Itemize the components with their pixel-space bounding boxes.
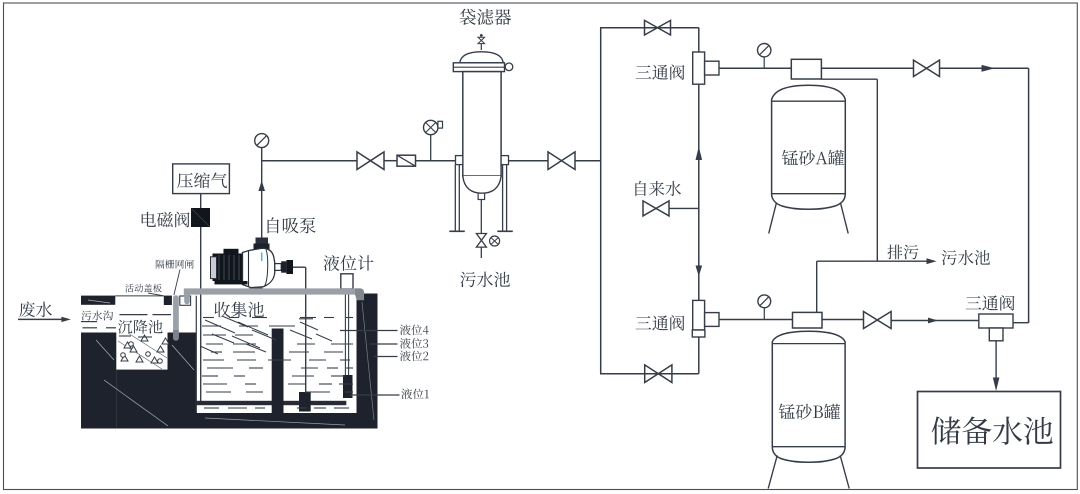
bag filter bottom stub <box>478 193 485 199</box>
bag filter right leg <box>497 165 513 232</box>
pipe: valve V2 to riser <box>575 160 601 162</box>
flow arrow to 3-way right <box>928 318 938 324</box>
tap water valve V4 <box>643 201 669 216</box>
blowdown arrow <box>927 258 937 264</box>
pipe: 3-way A to tank A <box>719 67 791 69</box>
level leader 4 <box>340 330 398 332</box>
pool interior left edge <box>195 296 197 413</box>
label 活动盖板 <box>125 284 163 296</box>
pool right wall <box>357 294 378 429</box>
pipe: box to solenoid <box>200 194 202 208</box>
pipe: main line pump to valve <box>262 160 357 162</box>
pipe: solenoid down into pool <box>200 227 202 401</box>
label 污水沟 <box>81 311 113 321</box>
valve V1 on main line <box>357 152 384 170</box>
pipe: strainer to bag filter <box>416 160 456 162</box>
label 隔栅网闸 <box>156 260 194 295</box>
pipe: tank B outlet <box>822 319 864 321</box>
pipe: top header <box>600 27 699 29</box>
pipe: header down to 3-way A <box>698 28 700 52</box>
cover bar right (black) <box>164 296 172 305</box>
label 电磁阀 <box>142 212 190 228</box>
bag filter drain pipe <box>480 200 482 259</box>
level gauge tubes <box>345 289 348 376</box>
label 污水池 (drain) <box>460 272 510 288</box>
pipe: blowdown down to tank B cap <box>816 261 818 312</box>
pool top bar left <box>81 296 115 305</box>
label 锰砂B罐 <box>779 404 840 420</box>
gauge PG1 <box>424 120 443 134</box>
flow arrow up on riser <box>258 181 265 192</box>
three-way valve B body <box>692 300 719 337</box>
cover top hairline <box>115 295 164 297</box>
label 储备水池 <box>932 416 1053 444</box>
pipe: right drop line <box>1028 68 1030 322</box>
bag filter flange <box>453 63 513 72</box>
level sensor block <box>343 375 353 398</box>
level gauge head <box>341 274 353 289</box>
reserve tank box <box>918 392 1061 469</box>
tank B cap <box>793 312 823 328</box>
arrow into reserve tank <box>993 378 1000 392</box>
pipe: center riser <box>698 84 700 300</box>
bag filter left leg <box>449 165 465 232</box>
label 液位计 <box>324 255 374 271</box>
settler right wall / pool left wall <box>168 333 197 429</box>
pump P1 <box>211 238 294 291</box>
bag filter bottom dish <box>463 176 501 193</box>
bag filter dome <box>460 52 503 63</box>
valve V5 bottom loop <box>645 365 672 383</box>
tank A body <box>772 85 846 209</box>
bag filter body <box>463 72 501 176</box>
pipe: pump outlet to downpipe <box>293 266 306 268</box>
compressed air box <box>173 164 230 194</box>
label 污水池 (top) <box>942 250 990 265</box>
valve V7 tank B outlet <box>864 312 892 329</box>
pipe: 3-way C down <box>995 341 997 379</box>
label 废水 <box>19 301 52 317</box>
tank A cap <box>791 59 821 79</box>
label 袋滤器 <box>460 9 511 25</box>
level leader 2 <box>374 356 398 358</box>
bag filter left stub <box>456 156 463 165</box>
pipe: tank A drain down <box>821 79 877 261</box>
pipe: tank A outlet <box>821 67 913 69</box>
tank B body <box>772 331 845 462</box>
valve V6 tank A outlet <box>914 60 940 76</box>
sediment symbols in settling pool <box>119 335 169 363</box>
pool baffle wall <box>272 329 284 414</box>
pipe: tank B outlet to 3-way <box>891 320 979 322</box>
bag filter right stub <box>501 156 508 165</box>
bracket square at lid elbow <box>180 296 191 305</box>
label 排污 <box>887 245 918 260</box>
pool black under settling pocket <box>116 370 167 429</box>
label 三通阀 (A) <box>636 64 685 79</box>
level leader 1 <box>350 394 400 396</box>
valve V3 top header <box>645 20 671 35</box>
pipe: right drop into 3-way C <box>1013 321 1029 323</box>
label 三通阀 (C) <box>966 295 1015 310</box>
water dashes in collection pool <box>202 318 353 409</box>
wastewater arrow <box>18 317 71 322</box>
construction joint lines <box>88 300 374 426</box>
tank B legs <box>768 456 849 489</box>
channel water dashes <box>81 315 171 328</box>
label 液位1 <box>401 388 428 399</box>
bag filter finial <box>478 34 485 50</box>
valve V2 <box>548 152 575 170</box>
pipe: valve V1 to strainer <box>384 160 397 162</box>
pipe: suction downpipe <box>305 267 307 393</box>
pipe: tap valve to riser <box>669 207 699 209</box>
pump gauge PG2 <box>255 134 269 148</box>
flow arrow to right drop <box>982 65 996 72</box>
label 锰砂A罐 <box>782 150 844 166</box>
label 自来水 <box>635 181 681 196</box>
label 自吸泵 <box>268 217 316 233</box>
label 压缩气 <box>177 172 227 188</box>
gauge PG4 <box>758 295 771 308</box>
three-way valve A body <box>693 52 719 84</box>
flow arrow down to B <box>696 266 703 277</box>
pool bottom <box>196 413 378 429</box>
flow arrow up to A <box>696 147 703 161</box>
label 液位3 <box>400 338 428 349</box>
solenoid valve (black) <box>191 208 210 227</box>
label 液位2 <box>400 350 428 361</box>
level leader 3 <box>370 343 398 345</box>
gauge PG4 stem <box>763 308 765 320</box>
pipe: bag filter to valve V2 <box>509 160 549 162</box>
label 收集池 <box>215 302 264 318</box>
gauge PG3 stem <box>763 57 765 69</box>
label 液位4 <box>400 324 429 335</box>
strainer S1 <box>397 155 416 166</box>
label 沉降池 <box>118 320 163 334</box>
bag filter drain valve <box>476 234 499 248</box>
pipe: tank A outlet to right drop <box>940 67 1029 69</box>
foot valve block <box>299 392 311 412</box>
grid gate (gray bar) <box>173 295 179 341</box>
pool floor bar <box>196 401 346 405</box>
three-way valve C body <box>979 314 1013 341</box>
label 三通阀 (B) <box>636 315 685 330</box>
pipe: 3-way B bottom loop <box>698 337 700 374</box>
gauge PG3 <box>758 44 771 57</box>
pipe: 3-way B to tank B <box>719 319 793 321</box>
gauge PG1 stem <box>430 135 432 161</box>
pool black mass left (below channel) <box>81 333 116 429</box>
pipe: blowdown header <box>817 260 927 262</box>
water hatch strokes <box>200 316 332 354</box>
tank A legs <box>769 203 849 234</box>
pipe: bottom loop horizontal <box>600 373 699 375</box>
pipe: pump riser <box>261 148 263 239</box>
pipe: left riser x=600 <box>600 28 602 374</box>
pool lid (gray) <box>184 288 364 304</box>
